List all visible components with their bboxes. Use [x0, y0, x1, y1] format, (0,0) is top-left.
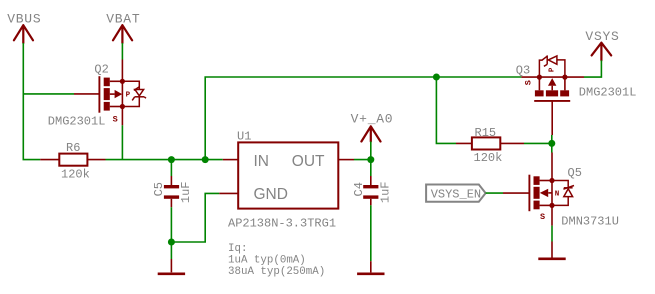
wire U1 OUT pin [338, 159, 354, 161]
wire VBAT to Q2 drain [121, 43, 123, 81]
svg-text:P: P [126, 91, 131, 99]
Q5 drain stub [540, 180, 552, 182]
svg-text:VSYS_EN: VSYS_EN [431, 188, 481, 202]
wire C4 to ground [370, 199, 372, 273]
svg-text:C5: C5 [152, 182, 166, 196]
Q5 gate bar [528, 175, 530, 212]
capacitor C5 [164, 185, 179, 199]
Q3 source stub [564, 77, 566, 90]
wire OUT to V+ node [354, 159, 371, 161]
transistor Q3 [534, 55, 570, 101]
svg-text:VBAT: VBAT [106, 12, 140, 27]
junction riser node [202, 156, 209, 163]
power symbol VBUS [14, 25, 33, 43]
Q3 right dot [562, 75, 567, 80]
Q5 body diode [552, 181, 574, 206]
junction OUT node [367, 156, 374, 163]
resistor R6 pins [40, 159, 105, 161]
svg-text:V+_A0: V+_A0 [351, 112, 394, 127]
wire VBUS vertical [23, 43, 40, 160]
wire C5 top [170, 160, 172, 185]
junction Q3 gate node [548, 140, 555, 147]
svg-text:VSYS: VSYS [585, 29, 619, 44]
svg-text:1uA typ(0mA): 1uA typ(0mA) [228, 255, 306, 267]
svg-text:N: N [555, 190, 560, 198]
transistor Q2 [99, 76, 146, 113]
wire VSYS drop [584, 60, 601, 77]
Q2 source stub [110, 106, 123, 108]
Q2 gate bar [98, 76, 100, 113]
Q2 arrow [110, 93, 115, 95]
wire Q5 source to ground [551, 205, 553, 257]
ground C5 [158, 272, 185, 275]
svg-text:S: S [540, 212, 545, 222]
Q2 channel line [121, 81, 123, 106]
Q5 arrow [548, 192, 552, 194]
Q2 drain dot [120, 79, 125, 84]
wire GND route to U1 [171, 193, 219, 242]
Q5 channel line [551, 181, 553, 206]
svg-text:120k: 120k [61, 167, 90, 181]
svg-text:GND: GND [254, 186, 288, 203]
Q3 arrow [551, 86, 553, 91]
wire VSYS_EN to Q5 gate [486, 192, 530, 194]
svg-text:Q3: Q3 [516, 64, 530, 78]
junction C5 top node [168, 156, 175, 163]
wire C5 bottom [170, 199, 172, 242]
svg-text:DMG2301L: DMG2301L [48, 115, 106, 129]
power symbol V+_A0 [361, 126, 380, 141]
Q2 drain stub [110, 80, 123, 82]
svg-text:1uF: 1uF [179, 181, 193, 203]
svg-text:Iq:: Iq: [228, 243, 247, 255]
Q5 source dot [549, 203, 554, 208]
Q3 gate bar [534, 100, 570, 102]
Q5 source stub [540, 204, 552, 206]
wire Q2 gate pin [74, 93, 99, 95]
svg-text:DMG2301L: DMG2301L [579, 85, 637, 99]
wire R15 to gate node [524, 142, 552, 144]
junction R15 branch node [433, 74, 440, 81]
wire VBUS to Q2 gate [23, 93, 74, 95]
wire V+ arrow to C4 [370, 142, 372, 186]
Q3 channel line [539, 76, 565, 78]
svg-text:Q2: Q2 [94, 62, 108, 76]
svg-text:AP2138N-3.3TRG1: AP2138N-3.3TRG1 [228, 216, 336, 230]
Q2 body diode [122, 81, 146, 106]
svg-text:Q5: Q5 [568, 166, 582, 180]
wire riser to top row [205, 77, 521, 160]
ground Q5 [538, 257, 565, 260]
Q3 left dot [537, 75, 542, 80]
svg-text:1uF: 1uF [378, 181, 392, 203]
svg-text:S: S [523, 80, 533, 85]
capacitor C4 [363, 185, 378, 199]
wire U1 IN pin [223, 159, 238, 161]
wire R15 branch [436, 77, 456, 143]
svg-text:S: S [113, 114, 118, 124]
Q3 channel bars [535, 90, 544, 96]
wire Q3 gate column [551, 101, 553, 180]
note Iq [228, 243, 325, 278]
resistor R15 [472, 137, 500, 149]
svg-text:R6: R6 [66, 141, 80, 155]
wire U1 GND pin [219, 192, 238, 194]
junction GND node [168, 239, 175, 246]
wire Q3 right pin [565, 76, 584, 78]
svg-text:IN: IN [254, 153, 270, 170]
Q3 drain stub [538, 77, 540, 90]
wire C5 ground [170, 242, 172, 272]
transistor Q5 [529, 175, 574, 212]
Q3 body diode [539, 55, 565, 77]
svg-text:DMN3731U: DMN3731U [561, 214, 619, 228]
svg-text:U1: U1 [237, 129, 251, 143]
Q5 drain dot [549, 178, 554, 183]
global label VSYS_EN [426, 185, 486, 202]
resistor R6 [59, 154, 87, 166]
svg-text:120k: 120k [474, 151, 503, 165]
ground C4 [357, 272, 384, 275]
svg-text:38uA typ(250mA): 38uA typ(250mA) [228, 266, 325, 278]
ic U1 [238, 142, 338, 208]
wire main row to IN [106, 159, 223, 161]
wire Q3 left pin [521, 76, 539, 78]
Q2 source dot [120, 104, 125, 109]
power symbol VBAT [113, 25, 132, 43]
svg-text:R15: R15 [475, 126, 497, 140]
svg-text:C4: C4 [352, 182, 366, 196]
resistor R15 pins [456, 142, 524, 144]
svg-text:P: P [549, 67, 557, 72]
svg-text:VBUS: VBUS [7, 12, 41, 27]
power symbol VSYS [592, 43, 612, 61]
Q2 channel bars [104, 78, 110, 87]
wire Q2 source down [121, 106, 123, 159]
Q5 channel bars [534, 176, 540, 185]
svg-text:OUT: OUT [292, 153, 325, 170]
